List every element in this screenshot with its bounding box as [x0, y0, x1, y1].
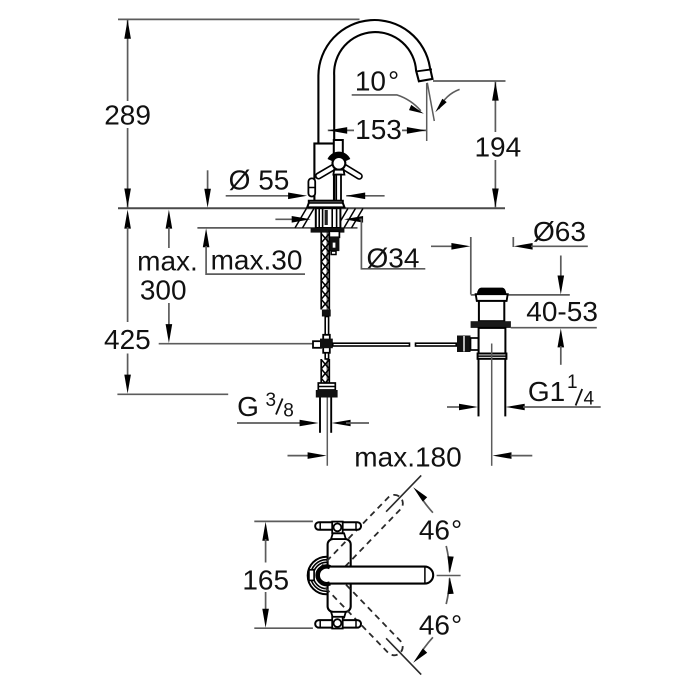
194 top reference line (outlet level): [433, 80, 506, 82]
425 bottom reference line: [117, 393, 228, 395]
pop-up linkage cross fitting: [323, 335, 330, 353]
dimension 40-53: [560, 256, 562, 278]
top view: lower T-handle: [315, 620, 361, 628]
connection pipes: [319, 398, 321, 433]
dimension 153: [328, 129, 354, 131]
dimension max.180: [288, 455, 310, 457]
svg-text:3: 3: [266, 390, 277, 411]
cross handle hub: [333, 157, 346, 170]
diameter 63 extension lines: [470, 237, 472, 295]
svg-text:300: 300: [140, 274, 187, 305]
svg-text:165: 165: [242, 565, 289, 596]
supply hose connector and pop-up rod holder: [329, 231, 339, 237]
dimension 425: [124, 210, 131, 229]
braided supply hose upper section: [320, 233, 322, 310]
top view: lower axis extension line: [386, 638, 421, 674]
hose end fitting: [322, 310, 331, 317]
svg-text:46°: 46°: [419, 515, 462, 546]
drain plug dome (black): [477, 288, 507, 295]
svg-text:Ø 55: Ø 55: [229, 165, 290, 196]
svg-text:1: 1: [567, 372, 578, 393]
svg-text:G1: G1: [528, 376, 565, 407]
top view: horizontal centerline extension: [437, 575, 461, 577]
svg-text:153: 153: [355, 114, 402, 145]
max.30 annotation: [207, 170, 209, 190]
handle upper stem: [334, 140, 343, 158]
top view: escutcheon ring arcs: [308, 557, 346, 595]
top view: left notch: [309, 570, 314, 581]
drain tailpipe: [478, 359, 480, 417]
top view: body block: [328, 539, 351, 612]
threaded shank below deck: [316, 208, 341, 228]
faucet body column: [314, 144, 334, 201]
horizontal pop-up linkage bar: [333, 343, 410, 346]
linkage-level reference line: [159, 343, 317, 345]
svg-text:8: 8: [283, 401, 294, 422]
top view: upper axis extension line: [386, 475, 421, 511]
counter bottom line (max.30 thickness): [197, 227, 357, 229]
svg-text:10°: 10°: [355, 66, 399, 97]
drain body: [479, 328, 506, 354]
handle rear spoke arc (dark crescent): [330, 154, 348, 160]
40-53 bottom reference line: [511, 327, 597, 329]
countertop deck line: [118, 207, 505, 209]
braided hose lower section: [325, 353, 328, 359]
svg-text:40-53: 40-53: [526, 296, 598, 327]
linkage clamp block at drain: [457, 336, 471, 353]
top view: lower neck: [331, 612, 346, 618]
dimension G 3/8: [237, 422, 301, 424]
counter cross-section hatching right: [337, 208, 349, 228]
left handle spoke: [319, 167, 334, 176]
svg-text:G: G: [237, 391, 259, 422]
drain flange ring: [471, 321, 511, 328]
46 deg lower arc piece (outer): [417, 637, 433, 659]
counter cross-section hatching left: [295, 208, 307, 228]
top view: dashed swivel capsule -46: [313, 563, 406, 658]
svg-text:425: 425: [104, 324, 151, 355]
top view: upper neck: [331, 533, 346, 539]
top view: dashed swivel capsule +46: [313, 491, 406, 586]
base escutcheon: [307, 201, 344, 208]
dimension G1 1/4: [447, 406, 460, 408]
dimension 194 vertical line: [494, 81, 496, 132]
10-degree tilted outlet axis line: [427, 83, 434, 121]
max. 300 dimension: [166, 210, 173, 229]
G 3/8 connection fitting: [318, 383, 335, 390]
46 deg lower arc piece (inner, to 0 axis): [446, 578, 449, 604]
spout aerator band line: [417, 69, 432, 71]
40-53 top reference line: [471, 294, 570, 296]
dimension diameter 63: [431, 245, 453, 247]
svg-text:Ø34: Ø34: [367, 242, 420, 273]
pop-up rod upper: [325, 317, 328, 336]
drain neck: [479, 301, 504, 321]
spout gooseneck outline: [318, 20, 432, 143]
top view: spout capsule: [316, 567, 433, 584]
46 deg upper arc piece (outer): [417, 491, 433, 513]
dimension 289 vertical line: [127, 19, 129, 101]
svg-text:max.: max.: [137, 245, 198, 276]
svg-text:max.180: max.180: [354, 442, 461, 473]
svg-text:194: 194: [474, 132, 521, 163]
dimension 165: [262, 522, 269, 541]
46 deg upper arc piece (inner, to 0 axis): [446, 546, 449, 572]
pop-up rod knob on left of body: [308, 178, 315, 196]
top reference line (spout top level): [118, 18, 360, 20]
mounting nut: [311, 228, 345, 233]
drain centerline: [491, 344, 493, 466]
handle neck below hub: [333, 170, 344, 175]
svg-text:max.30: max.30: [211, 245, 303, 276]
top view: 165 reference lines: [254, 520, 313, 522]
faucet centerline: [326, 122, 328, 466]
svg-text:289: 289: [104, 100, 151, 131]
drain bottom ring: [478, 354, 507, 359]
handle lower stem: [336, 175, 341, 201]
153 right extension line (vertical from outlet): [426, 83, 428, 141]
dimension diameter 34: [275, 218, 294, 220]
top view: upper T-handle: [315, 522, 361, 530]
right handle spoke: [344, 167, 359, 176]
svg-text:Ø63: Ø63: [533, 216, 586, 247]
drain flange cap: [476, 294, 508, 301]
svg-text:46°: 46°: [419, 610, 462, 641]
top view: black collar C-arc: [318, 567, 330, 585]
